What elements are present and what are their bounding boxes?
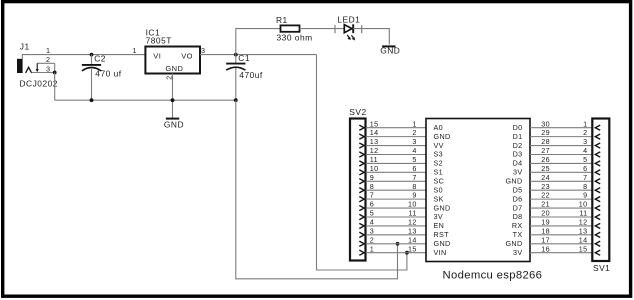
svg-text:15: 15 [579,244,588,253]
wire SV2 pin 14 to U1 [366,136,426,138]
wire IC1 VO to VIN drop [200,54,317,56]
pin number 9 (U1 left) [412,191,416,200]
wire U1 to SV1 pin 13 [530,234,592,236]
pin name S3 (U1 left row 4) [434,150,444,159]
wire J1 pin1 stub [22,55,145,59]
pin SV1-13 contact [595,232,600,237]
pin number 9 (SV1) [583,191,587,200]
pin number 7 (SV1) [583,173,587,182]
svg-text:8: 8 [412,182,416,191]
connector SV1 [592,119,609,262]
wire IC1 GND lead [172,74,174,119]
pin name D7 (U1 right row 10) [513,203,523,212]
pin number 6 (SV1) [583,164,587,173]
pin number 2 (IC1) [165,75,174,79]
LED1 cathode tick [361,25,363,33]
svg-text:D2: D2 [513,141,523,150]
svg-text:VIN: VIN [434,248,447,257]
pin number 30 (U1 right) [541,119,550,128]
wire U1 to SV1 pin 10 [530,207,592,209]
pin number 13 (U1 left) [408,226,417,235]
svg-text:21: 21 [541,200,550,209]
pin SV1-9 contact [595,197,600,202]
pin number 15 (SV1) [579,244,588,253]
pin SV1-11 contact [595,214,600,219]
pin name D1 (U1 right row 2) [513,132,523,141]
svg-text:C1: C1 [238,53,250,63]
pin SV2-7 contact [359,197,364,202]
svg-text:11: 11 [409,209,417,218]
wire C2 top lead [91,55,93,65]
svg-text:D3: D3 [513,150,523,159]
wire LED1 to ground [353,29,389,45]
pin number 2 (SV1) [583,128,587,137]
svg-text:D0: D0 [513,123,523,132]
ground symbol below IC1 [166,118,179,120]
pin number 9 (SV2) [370,173,374,182]
pin number 1 (IC1) [132,46,136,55]
pin number 15 (U1 left) [408,244,417,253]
wire J1 pin2 [37,62,55,64]
svg-text:14: 14 [370,128,379,137]
wire ground to GND (SV2 pin 14) [236,100,398,279]
svg-text:GND: GND [165,64,183,73]
pin number 10 (SV2) [370,164,379,173]
value label 7805T [146,35,172,45]
svg-text:A0: A0 [434,123,444,132]
wire U1 to SV1 pin 2 [530,136,592,138]
pin SV1-12 contact [595,223,600,228]
svg-text:330 ohm: 330 ohm [277,33,313,43]
wire SV2 pin 4 to U1 [366,225,426,227]
label Nodemcu esp8266 [443,270,543,282]
pin number 29 (U1 right) [541,128,550,137]
wire U1 to SV1 pin 4 [530,153,592,155]
pin number 7 (U1 left) [412,173,416,182]
wire SV2 pin 5 to U1 [366,216,426,218]
svg-text:19: 19 [541,218,550,227]
pin number 3 (SV1) [583,137,587,146]
svg-text:3: 3 [370,226,374,235]
svg-text:1: 1 [46,46,50,55]
pin SV2-4 contact [359,223,364,228]
svg-text:J1: J1 [20,42,30,52]
svg-text:3: 3 [46,65,50,74]
pin SV1-15 contact [595,250,600,255]
svg-text:S2: S2 [434,159,444,168]
junction C1 bottom node [234,98,238,102]
label SV2 [349,107,366,117]
svg-text:5: 5 [583,155,587,164]
svg-text:26: 26 [541,155,550,164]
wire SV2 pin 15 to U1 [366,127,426,129]
pin number 2 (SV2) [370,235,374,244]
svg-text:13: 13 [408,226,417,235]
pin SV1-8 contact [595,188,600,193]
svg-text:DCJ0202: DCJ0202 [20,79,58,89]
wire SV2 pin 11 to U1 [366,162,426,164]
pin SV2-8 contact [359,188,364,193]
svg-text:10: 10 [370,164,379,173]
junction GND tap [396,242,400,246]
pin name 3V (U1 right row 15) [513,248,523,257]
svg-text:GND: GND [434,132,451,141]
pin number 1 (SV2) [370,244,374,253]
svg-text:16: 16 [541,244,550,253]
wire R1 to LED1 [300,28,345,30]
pin SV2-5 contact [359,214,364,219]
pin number 13 (SV2) [370,137,379,146]
wire U1 to SV1 pin 1 [530,127,592,129]
svg-text:2: 2 [370,235,374,244]
wire C1 bottom lead [235,68,237,100]
pin SV1-2 contact [595,134,600,139]
J1 switch arrow [36,63,39,72]
svg-text:VO: VO [181,52,193,61]
wire U1 to SV1 pin 9 [530,198,592,200]
wire U1 to SV1 pin 3 [530,145,592,147]
svg-text:5: 5 [412,155,416,164]
ground symbol at LED1 [382,45,395,47]
capacitor C2 [82,65,101,71]
wire SV2 pin 2 to U1 [366,243,426,245]
label R1 [276,15,288,25]
wire U1 to SV1 pin 12 [530,225,592,227]
svg-text:18: 18 [541,226,550,235]
svg-text:4: 4 [412,146,416,155]
svg-text:12: 12 [408,218,417,227]
svg-text:D7: D7 [513,203,523,212]
pin name 3V (U1 left row 11) [434,212,444,221]
svg-text:D8: D8 [513,212,523,221]
pin number 12 (SV2) [370,146,379,155]
pin name S2 (U1 left row 5) [434,159,444,168]
label C2 [94,53,106,63]
junction J1 pin3 node [53,71,57,75]
pin SV1-14 contact [595,241,600,246]
pin name VO (IC1) [181,52,193,61]
pin name 3V (U1 right row 6) [513,168,523,177]
svg-text:14: 14 [408,235,417,244]
pin SV2-12 contact [359,152,364,157]
connector J1 DC jack barrel [17,59,23,73]
svg-text:1: 1 [412,119,416,128]
pin SV1-10 contact [595,205,600,210]
svg-text:8: 8 [370,182,374,191]
pin number 2 (J1) [46,55,50,64]
wire SV2 pin 13 to U1 [366,145,426,147]
label SV1 [593,263,610,273]
svg-text:VV: VV [434,141,444,150]
pin number 16 (U1 right) [541,244,550,253]
pin number 22 (U1 right) [541,191,550,200]
pin number 3 (SV2) [370,226,374,235]
pin number 14 (U1 left) [408,235,417,244]
svg-text:24: 24 [541,173,550,182]
svg-text:GND: GND [505,239,522,248]
svg-text:1: 1 [583,119,587,128]
svg-text:D1: D1 [513,132,523,141]
wire SV2 pin 1 to U1 [366,252,426,254]
LED1 emission arrow a [347,35,351,40]
pin SV2-10 contact [359,170,364,175]
pin number 8 (SV2) [370,182,374,191]
pin number 15 (SV2) [370,119,379,128]
svg-text:2: 2 [583,128,587,137]
svg-text:12: 12 [370,146,379,155]
svg-text:6: 6 [370,200,374,209]
svg-text:4: 4 [583,146,587,155]
svg-text:SC: SC [434,176,445,185]
pin number 14 (SV2) [370,128,379,137]
svg-text:9: 9 [583,191,587,200]
svg-text:3V: 3V [513,248,523,257]
pin number 1 (J1) [46,46,50,55]
svg-text:VI: VI [153,52,161,61]
svg-text:S3: S3 [434,150,444,159]
wire SV2 pin 6 to U1 [366,207,426,209]
pin number 10 (SV1) [579,200,588,209]
pin number 20 (U1 right) [541,209,550,218]
pin number 26 (U1 right) [541,155,550,164]
svg-text:30: 30 [541,119,550,128]
wire J1 to ground rail [54,73,56,101]
pin number 8 (U1 left) [412,182,416,191]
pin number 1 (U1 left) [412,119,416,128]
pin name VV (U1 left row 3) [434,141,444,150]
pin number 4 (SV1) [583,146,587,155]
svg-text:1: 1 [132,46,136,55]
pin number 17 (U1 right) [541,235,550,244]
pin SV2-3 contact [359,232,364,237]
pin name D4 (U1 right row 5) [513,159,523,168]
pin name GND (U1 right row 7) [505,176,522,185]
svg-text:EN: EN [434,221,445,230]
LED1 emission arrow b [352,35,356,40]
svg-text:SV1: SV1 [593,263,610,273]
svg-text:11: 11 [579,209,587,218]
svg-text:S0: S0 [434,185,444,194]
connector SV2 [350,119,366,261]
svg-text:10: 10 [408,200,417,209]
svg-text:1: 1 [370,244,374,253]
pin SV1-4 contact [595,152,600,157]
pin number 25 (U1 right) [541,164,550,173]
svg-text:7: 7 [412,173,416,182]
label IC1 [146,27,161,37]
wire SV2 pin 3 to U1 [366,234,426,236]
wire ground rail [55,99,236,101]
junction C2 bottom node [90,98,94,102]
svg-text:TX: TX [513,230,523,239]
svg-text:13: 13 [370,137,379,146]
wire SV2 pin 8 to U1 [366,189,426,191]
svg-text:RX: RX [512,221,523,230]
value label 330 ohm [277,33,313,43]
pin name D0 (U1 right row 1) [513,123,523,132]
pin name GND (U1 right row 14) [505,239,522,248]
pin name D2 (U1 right row 3) [513,141,523,150]
pin number 21 (U1 right) [541,200,550,209]
svg-text:7805T: 7805T [146,35,172,45]
pin SV2-15 contact [359,125,364,130]
pin name SK (U1 left row 9) [434,194,444,203]
wire U1 to SV1 pin 5 [530,162,592,164]
svg-text:S1: S1 [434,168,444,177]
wire SV2 pin 12 to U1 [366,153,426,155]
J1 sleeve chevron [26,67,32,73]
label LED1 [337,14,360,24]
pin number 6 (SV2) [370,200,374,209]
pin SV1-6 contact [595,170,600,175]
wire U1 to SV1 pin 14 [530,243,592,245]
pin number 23 (U1 right) [541,182,550,191]
pin name S1 (U1 left row 6) [434,168,444,177]
svg-text:3: 3 [583,137,587,146]
pin SV1-5 contact [595,161,600,166]
pin number 5 (SV1) [583,155,587,164]
pin number 8 (SV1) [583,182,587,191]
svg-text:3: 3 [412,137,416,146]
svg-text:9: 9 [370,173,374,182]
value label DCJ0202 [20,79,58,89]
junction VIN tap [405,251,409,255]
pin SV2-6 contact [359,205,364,210]
pin number 4 (U1 left) [412,146,416,155]
pin name EN (U1 left row 12) [434,221,445,230]
pin number 2 (U1 left) [412,128,416,137]
pin number 18 (U1 right) [541,226,550,235]
pin number 10 (U1 left) [408,200,417,209]
value label 470uf (C1) [239,70,263,80]
pin number 6 (U1 left) [412,164,416,173]
pin number 13 (SV1) [579,226,588,235]
svg-text:GND: GND [380,46,400,56]
pin name GND (U1 left row 2) [434,132,451,141]
svg-text:7: 7 [370,191,374,200]
pin name TX (U1 right row 13) [513,230,523,239]
pin SV2-13 contact [359,143,364,148]
wire C2 bottom lead [91,69,93,100]
svg-text:2: 2 [46,55,50,64]
capacitor C1 [226,64,245,71]
svg-text:R1: R1 [276,15,288,25]
pin number 12 (SV1) [579,218,588,227]
pin number 28 (U1 right) [541,137,550,146]
pin name VIN (U1 left row 15) [434,248,447,257]
pin SV1-1 contact [595,125,600,130]
pin name RST (U1 left row 13) [434,230,450,239]
module U1 Nodemcu esp8266 body [426,119,530,262]
svg-text:SV2: SV2 [349,107,366,117]
voltage regulator IC1 body [145,47,200,74]
svg-text:Nodemcu esp8266: Nodemcu esp8266 [443,270,543,282]
wire 5V riser to R1 [236,29,281,55]
junction C1 top node [234,53,238,57]
pin SV2-2 contact [359,241,364,246]
pin number 4 (SV2) [370,218,374,227]
svg-text:12: 12 [579,218,588,227]
wire SV2 pin 7 to U1 [366,198,426,200]
wire C1 top lead [235,55,237,63]
pin number 3 (J1) [46,65,50,74]
svg-text:27: 27 [541,146,550,155]
wire J1 pin3 [32,72,55,74]
pin name D5 (U1 right row 8) [513,185,523,194]
value label 470 uf (C2) [95,68,121,78]
resistor R1 [281,25,300,31]
svg-text:13: 13 [579,226,588,235]
pin number 27 (U1 right) [541,146,550,155]
svg-text:3V: 3V [434,212,444,221]
svg-text:GND: GND [164,120,184,130]
svg-text:GND: GND [434,239,451,248]
pin name D6 (U1 right row 9) [513,194,523,203]
pin number 24 (U1 right) [541,173,550,182]
svg-text:470uf: 470uf [239,70,263,80]
pin name A0 (U1 left row 1) [434,123,444,132]
pin number 1 (SV1) [583,119,587,128]
svg-text:D4: D4 [513,159,523,168]
svg-text:D5: D5 [513,185,523,194]
svg-text:3: 3 [201,46,205,55]
junction IC1 GND on rail [171,98,175,102]
pin name GND (IC1) [165,64,183,73]
svg-text:23: 23 [541,182,550,191]
pin SV2-9 contact [359,179,364,184]
pin number 19 (U1 right) [541,218,550,227]
wire SV2 pin 9 to U1 [366,180,426,182]
wire U1 to SV1 pin 15 [530,252,592,254]
pin number 3 (U1 left) [412,137,416,146]
svg-text:GND: GND [434,203,451,212]
label J1 [20,42,30,52]
svg-text:10: 10 [579,200,588,209]
junction C2 top node [90,53,94,57]
pin name D8 (U1 right row 11) [513,212,523,221]
wire 5V to VIN (SV2 pin 15) [317,55,407,270]
svg-text:470 uf: 470 uf [95,68,121,78]
svg-text:7: 7 [583,173,587,182]
pin number 12 (U1 left) [408,218,417,227]
svg-text:11: 11 [370,155,378,164]
pin name D3 (U1 right row 4) [513,150,523,159]
svg-text:28: 28 [541,137,550,146]
pin name RX (U1 right row 12) [512,221,523,230]
svg-text:SK: SK [434,194,444,203]
pin SV1-3 contact [595,143,600,148]
pin SV2-1 contact [359,250,364,255]
svg-text:22: 22 [541,191,550,200]
svg-text:6: 6 [583,164,587,173]
pin number 3 (IC1) [201,46,205,55]
pin number 7 (SV2) [370,191,374,200]
svg-text:25: 25 [541,164,550,173]
net label GND (LED1 ground) [380,46,400,56]
svg-text:15: 15 [408,244,417,253]
pin name SC (U1 left row 7) [434,176,445,185]
svg-text:5: 5 [370,209,374,218]
pin number 5 (SV2) [370,209,374,218]
net label GND (IC1 ground) [164,120,184,130]
wire J1 switch link [54,63,56,72]
pin SV2-11 contact [359,161,364,166]
pin name S0 (U1 left row 8) [434,185,444,194]
pin SV2-14 contact [359,134,364,139]
wire U1 to SV1 pin 6 [530,171,592,173]
svg-text:2: 2 [412,128,416,137]
svg-text:8: 8 [583,182,587,191]
